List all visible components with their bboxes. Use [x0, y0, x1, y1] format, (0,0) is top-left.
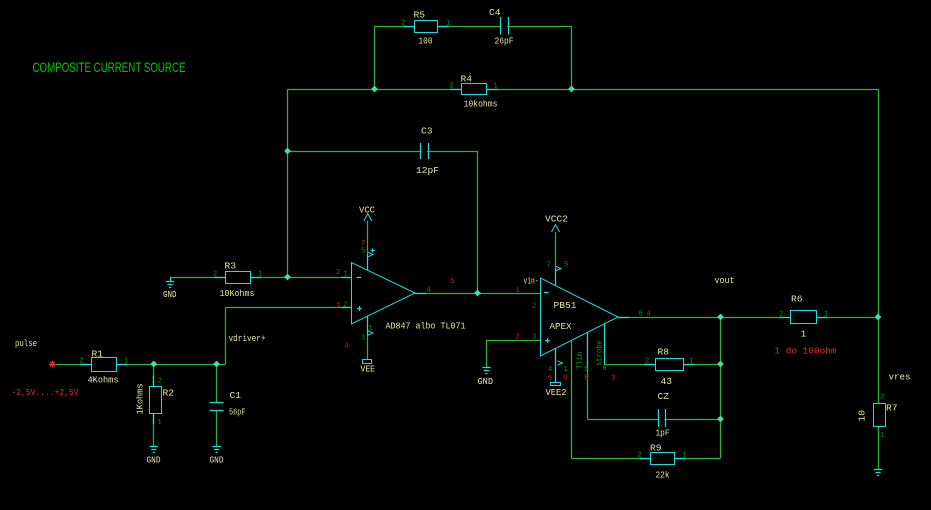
VEE2 pin flag	[558, 361, 563, 365]
svg-text:2: 2	[336, 269, 340, 277]
wire vout row	[618, 317, 878, 319]
VEE pin of U1	[367, 316, 369, 336]
svg-text:6: 6	[548, 375, 552, 383]
svg-text:22k: 22k	[656, 470, 670, 481]
resistor R8	[644, 364, 655, 366]
wire VCC stem	[367, 221, 369, 254]
svg-text:2: 2	[638, 452, 642, 460]
resistor R3	[214, 277, 225, 279]
svg-text:CZ: CZ	[658, 391, 670, 402]
svg-text:1: 1	[344, 271, 348, 279]
wire R2 branch vertical	[153, 364, 155, 446]
svg-text:12pF: 12pF	[416, 165, 439, 176]
capacitor C1	[210, 402, 224, 404]
svg-text:APEX: APEX	[550, 321, 572, 332]
svg-text:R7: R7	[886, 403, 898, 414]
U1 inverting input stub	[342, 277, 352, 279]
svg-text:R5: R5	[414, 10, 426, 21]
svg-text:5: 5	[584, 366, 588, 374]
svg-text:VEE2: VEE2	[546, 387, 567, 398]
svg-text:2: 2	[80, 358, 84, 366]
svg-text:GND: GND	[147, 455, 161, 466]
svg-text:4Kohms: 4Kohms	[88, 375, 119, 386]
wire pulse input row	[52, 364, 226, 366]
wire C1 branch vertical upper	[216, 364, 218, 402]
wire C3 to output vertical	[477, 151, 479, 293]
wire R3 row / inverting input	[170, 277, 352, 279]
wire R5/C4 top row	[375, 26, 572, 28]
junction R5 loop left	[371, 86, 378, 93]
svg-text:4: 4	[548, 366, 552, 374]
wire VCC2 stem	[555, 232, 557, 268]
svg-text:R6: R6	[791, 294, 803, 305]
svg-text:2: 2	[780, 311, 784, 319]
svg-text:2: 2	[450, 83, 454, 91]
svg-text:1: 1	[881, 432, 885, 440]
svg-text:2: 2	[516, 334, 520, 342]
wire vdriver+ vertical	[225, 308, 227, 365]
svg-text:VCC2: VCC2	[545, 214, 568, 225]
resistor R2 vertical	[153, 376, 155, 387]
svg-text:R3: R3	[225, 261, 237, 272]
resistor R5	[404, 26, 415, 28]
svg-text:26pF: 26pF	[495, 36, 514, 47]
junction R2 tap	[150, 361, 157, 368]
wire R4 feedback row	[288, 89, 879, 91]
svg-text:8: 8	[639, 311, 643, 319]
svg-text:1: 1	[689, 358, 693, 366]
capacitor C4	[502, 20, 508, 32]
svg-text:C3: C3	[421, 126, 433, 137]
U2 output stub	[618, 317, 629, 319]
U1 plus sign	[357, 308, 362, 310]
svg-text:3: 3	[532, 334, 536, 342]
svg-text:AD847 albo TL071: AD847 albo TL071	[386, 321, 466, 332]
svg-text:VCC: VCC	[359, 205, 375, 216]
svg-text:3: 3	[361, 335, 365, 343]
svg-text:4: 4	[647, 311, 651, 319]
svg-text:1: 1	[158, 419, 162, 427]
svg-text:VEE: VEE	[361, 364, 376, 375]
svg-text:1: 1	[683, 452, 687, 460]
junction CZ right	[717, 416, 724, 423]
junction R8 right	[717, 361, 724, 368]
svg-text:9: 9	[564, 375, 568, 383]
wire R9 row	[571, 458, 721, 460]
svg-text:C1: C1	[230, 390, 242, 401]
resistor R1	[80, 364, 91, 366]
svg-text:43: 43	[661, 376, 673, 387]
capacitor C3	[422, 145, 428, 157]
svg-text:10Kohms: 10Kohms	[220, 288, 255, 299]
open pin asterisk	[49, 364, 56, 366]
svg-text:2: 2	[881, 394, 885, 402]
svg-text:vout: vout	[715, 275, 735, 286]
svg-text:2: 2	[213, 271, 217, 279]
U1 output stub	[415, 293, 426, 295]
junction R5 loop right	[568, 86, 575, 93]
svg-text:-2,5V....+2,5V: -2,5V....+2,5V	[12, 387, 79, 398]
wire non-inverting input row	[226, 307, 352, 309]
svg-text:COMPOSITE CURRENT SOURCE: COMPOSITE CURRENT SOURCE	[33, 59, 186, 75]
svg-text:1: 1	[124, 358, 128, 366]
svg-text:pulse: pulse	[15, 338, 37, 349]
svg-text:5: 5	[450, 278, 454, 286]
svg-text:8: 8	[584, 375, 588, 383]
junction vout branch	[717, 314, 724, 321]
svg-text:2: 2	[645, 358, 649, 366]
svg-text:2: 2	[401, 20, 405, 28]
wire CZ row	[588, 419, 721, 421]
wire left vertical of R5/C4 loop	[374, 26, 376, 89]
svg-text:GND: GND	[210, 455, 224, 466]
U2 minus sign	[544, 292, 549, 294]
wire Tlim pin vertical	[571, 341, 573, 458]
VCC pin plus	[371, 250, 375, 252]
resistor R4	[450, 89, 461, 91]
op-amp U2 PB51 triangle	[541, 278, 619, 356]
wire C1 branch vertical lower	[216, 411, 218, 447]
ground symbol below R7	[874, 469, 882, 471]
wire strobe pin vertical	[587, 372, 589, 420]
svg-text:GND: GND	[478, 376, 494, 387]
U2 pin stub to R8	[604, 324, 606, 364]
U1 non-inverting input stub	[342, 307, 352, 309]
svg-text:1: 1	[801, 329, 807, 340]
svg-text:strobe: strobe	[595, 340, 605, 366]
wire U2 non-inverting input to ground	[486, 340, 488, 367]
resistor R9	[640, 458, 651, 460]
ground symbol at U2 non-inverting input	[482, 367, 490, 369]
op-amp U1 triangle	[352, 263, 416, 325]
svg-text:GND: GND	[163, 289, 177, 300]
VEE bar symbol	[363, 360, 372, 364]
ground symbol below R2	[150, 446, 158, 448]
svg-text:1: 1	[494, 83, 498, 91]
svg-text:R1: R1	[92, 349, 104, 360]
svg-text:R4: R4	[461, 74, 473, 85]
svg-text:10: 10	[857, 410, 868, 422]
junction vres	[875, 314, 882, 321]
svg-text:4: 4	[345, 343, 349, 351]
svg-text:10kohms: 10kohms	[464, 99, 498, 110]
svg-text:R8: R8	[658, 347, 670, 358]
svg-text:7: 7	[547, 262, 551, 270]
svg-text:8: 8	[603, 365, 607, 373]
junction C3/output	[474, 290, 481, 297]
VCC2 pin segment	[555, 268, 557, 286]
resistor R7 vertical	[874, 404, 886, 427]
svg-text:4: 4	[427, 287, 431, 295]
svg-text:5: 5	[564, 262, 568, 270]
svg-text:3: 3	[612, 375, 616, 383]
svg-text:56pF: 56pF	[229, 407, 246, 418]
svg-text:2: 2	[158, 378, 162, 386]
svg-text:2: 2	[343, 302, 347, 310]
resistor R6	[780, 317, 791, 319]
svg-text:R2: R2	[163, 388, 175, 399]
ground symbol at R3 input	[170, 277, 172, 282]
strobe pin stub	[587, 332, 589, 371]
svg-text:1pF: 1pF	[656, 428, 670, 439]
wire U2 non-inverting input row	[487, 340, 541, 342]
svg-text:vdriver+: vdriver+	[229, 333, 266, 344]
svg-text:1: 1	[446, 20, 450, 28]
svg-text:1 do 100ohm: 1 do 100ohm	[775, 346, 837, 357]
svg-text:PB51: PB51	[554, 300, 577, 311]
svg-text:1Kohms: 1Kohms	[135, 384, 146, 415]
VEE2 bar symbol	[551, 383, 561, 386]
svg-text:1: 1	[516, 287, 520, 295]
svg-text:1: 1	[258, 271, 262, 279]
svg-text:1: 1	[564, 366, 568, 374]
junction inverting input	[284, 274, 291, 281]
svg-text:vin-: vin-	[524, 276, 539, 287]
junction C1 tap	[213, 361, 220, 368]
VEE2 pin of U2	[555, 349, 557, 383]
wire C3 row	[288, 151, 478, 153]
svg-text:2: 2	[532, 303, 536, 311]
U1 minus sign	[357, 277, 362, 279]
wire left vertical to inverting input	[287, 89, 289, 277]
ground symbol below C1	[212, 446, 220, 448]
VCC2 power arrow	[552, 225, 560, 233]
U2 plus sign	[545, 340, 550, 342]
svg-text:vres: vres	[889, 372, 911, 383]
svg-text:1: 1	[824, 311, 828, 319]
wire vout vertical branch	[720, 317, 722, 458]
svg-text:R9: R9	[650, 443, 662, 454]
wire R8 row	[604, 364, 721, 366]
VCC pin flag	[368, 252, 373, 256]
wire op-amp U1 output to U2 inverting input	[415, 293, 541, 295]
VEE pin flag	[368, 331, 373, 335]
wire right-side vertical (feedback to vres)	[878, 89, 880, 470]
wire right vertical of R5/C4 loop	[571, 26, 573, 89]
VCC power arrow	[364, 214, 372, 222]
svg-text:1: 1	[337, 302, 341, 310]
svg-text:5: 5	[361, 248, 365, 256]
capacitor CZ	[659, 414, 665, 424]
junction C3 row	[284, 148, 291, 155]
svg-text:100: 100	[419, 36, 433, 47]
VCC2 pin flag	[556, 266, 561, 270]
VEE pin wire segment	[367, 336, 369, 360]
VCC pin segment	[367, 254, 369, 270]
svg-text:C4: C4	[489, 7, 501, 18]
